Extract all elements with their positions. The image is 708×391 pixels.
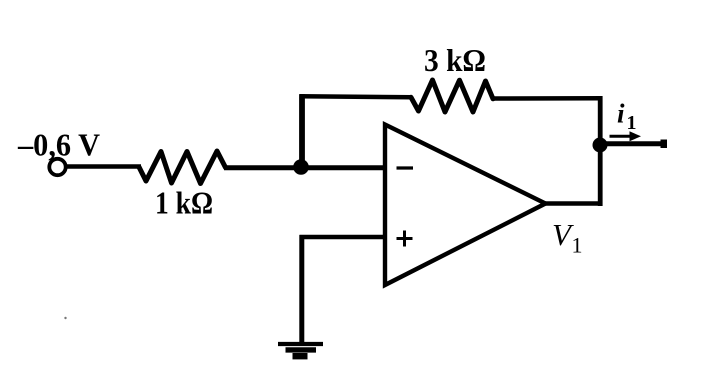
wire junction up xyxy=(299,94,305,169)
wire input to R1 xyxy=(66,164,142,169)
svg-text:1 kΩ: 1 kΩ xyxy=(155,185,213,221)
wire right vertical xyxy=(598,96,603,206)
node junction dot xyxy=(293,159,309,175)
resistor R1 1 kOhm xyxy=(139,151,226,184)
source terminal (open circle) xyxy=(49,159,65,175)
node output dot xyxy=(593,138,608,153)
op-amp plus sign xyxy=(397,237,413,240)
wire noninverting input xyxy=(300,235,386,240)
wire output stub xyxy=(600,141,666,146)
svg-text:i: i xyxy=(617,99,625,129)
wire down to ground xyxy=(299,235,304,344)
svg-text:1: 1 xyxy=(627,112,637,134)
svg-text:3 kΩ: 3 kΩ xyxy=(424,42,486,78)
wire op-amp output xyxy=(544,201,602,206)
current arrow i1 xyxy=(610,135,633,138)
svg-text:–0,6 V: –0,6 V xyxy=(17,127,100,163)
ground xyxy=(278,342,323,346)
op-amp U1 xyxy=(385,125,546,286)
wire R1 to inverting input xyxy=(224,165,386,170)
resistor R2 3 kOhm xyxy=(411,80,493,112)
wire top left to R2 xyxy=(300,96,413,97)
op-amp minus sign xyxy=(397,166,414,169)
svg-text:1: 1 xyxy=(572,233,583,258)
speck xyxy=(64,317,66,319)
wire R2 to right vertical xyxy=(492,96,603,101)
output end tick xyxy=(661,140,668,149)
